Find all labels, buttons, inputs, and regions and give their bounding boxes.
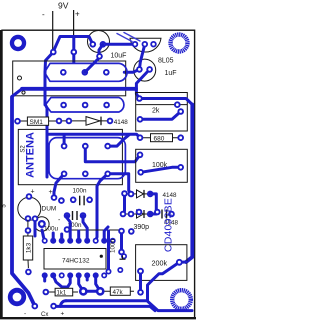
wire ic b2 loop — [53, 275, 70, 287]
mounting hole bottom-left — [8, 288, 26, 306]
pad L1c — [103, 69, 110, 76]
pad 390p a — [136, 209, 143, 216]
svg-text:1k1: 1k1 — [57, 291, 67, 297]
pad ic t8 — [101, 238, 107, 244]
svg-text:390p: 390p — [134, 224, 150, 231]
pad D2 l — [128, 191, 135, 198]
capacitor C2 1uF outline — [134, 59, 156, 81]
pad x122 top — [118, 228, 125, 235]
capacitor C1 10uF outline — [88, 31, 110, 53]
wire q2 to ic area — [34, 219, 37, 236]
pad ic b1 — [42, 272, 48, 278]
pad mid131 — [128, 228, 135, 235]
pad r680 r — [177, 134, 184, 141]
pad ic b3 — [59, 272, 65, 278]
pad r1k3 mid — [25, 227, 32, 234]
wire ic stub t8 — [104, 227, 108, 241]
wire antenna bus1 — [47, 134, 140, 138]
pad low2 — [104, 171, 111, 178]
svg-text:S2: S2 — [21, 145, 27, 153]
resistor R2 1k3 body — [23, 220, 32, 260]
wire ground lower — [54, 306, 155, 310]
mounting hole top-left — [10, 35, 26, 51]
wire big pads — [83, 290, 100, 293]
svg-text:+: + — [61, 311, 65, 318]
big pad a — [79, 287, 88, 296]
pad ic b5 — [76, 272, 82, 278]
pad low0 — [61, 171, 68, 178]
pad left of cap — [58, 197, 65, 204]
wire bus to left rail — [12, 89, 22, 99]
pad below200k — [137, 289, 144, 296]
wire ic b5 stub — [79, 275, 84, 291]
pad D3 l — [128, 211, 135, 218]
pad C2 right — [146, 66, 153, 73]
relay block outline — [49, 138, 125, 179]
pad ic b7 — [93, 272, 99, 278]
diode D3 symbol — [137, 210, 145, 218]
pad cx2 — [174, 101, 181, 108]
wire ic stub t6 — [83, 216, 87, 241]
IC pin1 dot — [100, 255, 103, 258]
diode D2 leads — [125, 193, 151, 195]
wire top supply trace — [53, 37, 93, 52]
pad cx1 — [136, 95, 143, 102]
resistor 47k leads — [103, 290, 134, 292]
wire cap to regulator — [103, 43, 135, 46]
svg-text:CD4093BE: CD4093BE — [163, 198, 175, 252]
svg-text:-: - — [42, 10, 45, 19]
pad L1a — [60, 69, 67, 76]
trimmer outline — [35, 217, 50, 232]
svg-text:100u: 100u — [44, 226, 59, 233]
svg-text:-: - — [24, 311, 26, 318]
wire ic b6 stub — [86, 275, 89, 280]
pad ant3 — [104, 143, 111, 150]
diode D1 symbol — [86, 117, 101, 126]
diode D2 symbol — [137, 190, 145, 198]
svg-text:+: + — [49, 189, 53, 196]
pad r200k l — [137, 268, 144, 275]
pad ic b8 — [101, 272, 107, 278]
pad L1b — [82, 69, 89, 76]
wire vert x122 — [120, 231, 123, 252]
pad ic t9 — [110, 238, 116, 244]
wire stub a — [63, 135, 66, 146]
wire battery plus lead — [73, 10, 75, 50]
wire r200k left vertical — [139, 271, 142, 292]
wire left rail — [12, 97, 35, 306]
board bottom edge thick — [0, 317, 196, 319]
svg-text:DUM: DUM — [42, 206, 57, 213]
wire r1k3 bot lead — [27, 260, 29, 268]
svg-text:SM1: SM1 — [30, 119, 44, 126]
antenna block outline — [18, 129, 122, 184]
IC U1 74HC132 body — [44, 249, 106, 270]
pad x122 bottom — [118, 249, 125, 256]
wire coil feed vertical — [45, 105, 47, 177]
wire reg out diag — [124, 69, 139, 72]
wire link jumper — [67, 229, 122, 231]
pad reg gnd — [142, 41, 148, 47]
wire emitter diagonal — [85, 44, 103, 72]
mounting hole bottom-right — [172, 290, 191, 309]
pad ic t4 — [67, 238, 73, 244]
wire ic b7 stub — [96, 275, 101, 291]
box 1uF-2k outline — [136, 93, 188, 132]
wire ground upper bend — [60, 301, 66, 307]
wire battery minus lead — [52, 11, 54, 50]
capacitor 100n b symbol — [73, 211, 78, 220]
pad jumper left — [64, 226, 71, 233]
wire r200k feed — [179, 261, 186, 264]
ground mark — [120, 256, 126, 260]
svg-text:100n: 100n — [110, 239, 117, 254]
svg-text:74HC132: 74HC132 — [62, 258, 90, 265]
capacitor 100n a symbol — [80, 196, 84, 206]
big pad b — [96, 287, 105, 296]
pad SM1 left — [14, 118, 21, 125]
wire low2 to diode — [108, 174, 131, 194]
pad D1 b — [66, 118, 73, 125]
resistor 680 leads — [140, 137, 181, 139]
wire minus down stub — [45, 52, 53, 72]
pad r1k3 bot — [25, 269, 32, 276]
pad ant1 — [61, 143, 68, 150]
pad cx minus — [32, 303, 39, 310]
pad cap r — [168, 211, 175, 218]
resistor 47k body — [110, 287, 130, 296]
wire low2 to cap100n — [96, 174, 108, 241]
jumper marker o1 — [18, 76, 22, 80]
wire ic stub t2 — [52, 233, 55, 241]
pad c100n a1 — [70, 197, 77, 204]
wire vert x108 — [107, 231, 110, 269]
svg-text:200k: 200k — [152, 258, 168, 267]
wire r100k — [141, 167, 181, 172]
pad D1 c — [107, 118, 114, 125]
pad mid35 — [32, 215, 39, 222]
pad x108 end — [106, 269, 112, 275]
pad r680 l — [137, 134, 144, 141]
wire ant3 up — [108, 135, 129, 146]
wire d2ll down — [123, 197, 126, 212]
pad L2c — [103, 102, 110, 109]
capacitor bars — [162, 210, 167, 219]
pad C1 minus — [90, 41, 97, 48]
pad q2a — [26, 193, 33, 200]
svg-text:680: 680 — [154, 136, 165, 143]
diode D1 leads — [59, 120, 110, 122]
pad ic t7 — [93, 238, 99, 244]
oscillator block outline — [13, 61, 126, 96]
pad D3 ll — [120, 211, 127, 218]
pad reg in — [132, 41, 138, 47]
pad r100k l — [137, 169, 144, 176]
coil L2 outline lower — [45, 98, 124, 113]
svg-text:8L05: 8L05 — [158, 58, 174, 65]
pad C1 plus — [100, 41, 107, 48]
wire reg mid pin down — [139, 44, 144, 69]
pad r100k r — [177, 164, 184, 171]
resistor 680 body — [151, 134, 173, 143]
coil L1 outline upper — [45, 63, 128, 81]
pad L2a — [60, 102, 67, 109]
pad r2k r — [177, 108, 184, 115]
wire main bus — [22, 87, 136, 91]
pad low1 — [82, 171, 89, 178]
regulator U2 78L05 package — [130, 38, 161, 52]
wire right rail — [186, 105, 192, 263]
resistor R3 small body — [46, 288, 78, 296]
wire trimmer down — [42, 230, 45, 241]
wire thin aux2 — [124, 33, 140, 42]
wire low0 to q2 — [54, 174, 64, 198]
pad q2c — [25, 215, 32, 222]
svg-text:ANTENA: ANTENA — [25, 132, 37, 178]
pad c100n b2 — [80, 212, 87, 219]
wire ic stub t3 — [60, 234, 63, 241]
wire thin aux1 — [117, 34, 132, 42]
pad ic b2 — [50, 272, 56, 278]
pad ic t2 — [50, 238, 56, 244]
wire plus down stub — [72, 52, 75, 63]
svg-text:10uF: 10uF — [111, 53, 127, 60]
pad ic b6 — [84, 272, 90, 278]
pad ic b4 — [67, 272, 73, 278]
mounting hole top-right — [171, 35, 188, 52]
jumper marker o2 — [22, 91, 25, 94]
diode D3 leads — [123, 213, 150, 215]
pad reg out — [150, 41, 156, 47]
pad ic t1 — [42, 238, 48, 244]
wire r2k — [140, 112, 181, 120]
pad c100n b1 — [64, 212, 71, 219]
board left edge thick — [0, 30, 2, 319]
jumper SM1 leads — [18, 120, 60, 122]
pad 390p b — [154, 209, 161, 216]
pad r200k r — [176, 259, 183, 266]
pad battery plus — [71, 49, 78, 56]
wire cap1uF down — [136, 69, 149, 98]
svg-text:1k3: 1k3 — [26, 242, 33, 253]
box divider — [136, 104, 188, 106]
pad ic right2 — [121, 253, 127, 259]
resistor 200k box — [136, 245, 187, 281]
pad ic t5 — [76, 238, 82, 244]
svg-text:9V: 9V — [58, 1, 69, 11]
svg-text:1uF: 1uF — [165, 70, 177, 77]
pad r3 l — [43, 289, 50, 296]
pad battery minus — [50, 49, 57, 56]
pad bus2 end — [137, 152, 144, 159]
wire ground upper — [66, 301, 192, 311]
resistor 100k box — [136, 149, 188, 182]
pad ic right — [117, 267, 123, 273]
wire plus stub — [72, 37, 75, 52]
pad trimmer — [38, 220, 46, 228]
pad D2 ll — [121, 190, 128, 197]
svg-text:100n: 100n — [73, 188, 88, 195]
svg-text:+: + — [75, 10, 80, 19]
pad L2b — [82, 102, 89, 109]
pad ic t3 — [59, 238, 65, 244]
pad emitter — [96, 53, 103, 60]
pad D1 a — [56, 118, 63, 125]
pad ant2 — [82, 143, 89, 150]
pad q2b — [51, 194, 58, 201]
pad D2 r — [147, 191, 154, 198]
pad D3 r — [147, 211, 154, 218]
wire coil tips vertical — [44, 72, 47, 105]
wire ic b1 loop — [43, 275, 46, 281]
pad r2k l — [137, 116, 144, 123]
board outline — [2, 30, 195, 318]
svg-text:4148: 4148 — [114, 119, 129, 126]
wire c2 trace — [139, 99, 192, 105]
jumper SM1 body — [27, 117, 48, 126]
transistor Q2 outline — [18, 197, 41, 220]
pad C2 left — [136, 66, 143, 73]
wire ic stub t7 — [77, 231, 80, 241]
pad cx plus — [50, 303, 57, 310]
wire antenna bus2 — [85, 146, 140, 162]
svg-text:47k: 47k — [113, 289, 124, 296]
wire ic stub t4 — [67, 216, 70, 241]
pad ic t6 — [84, 238, 90, 244]
pad c100n a2 — [86, 197, 93, 204]
svg-text:Cx: Cx — [41, 312, 48, 318]
wire r200k right to gnd — [148, 262, 180, 301]
svg-text:2k: 2k — [152, 108, 160, 115]
wire diode junction — [150, 194, 156, 214]
